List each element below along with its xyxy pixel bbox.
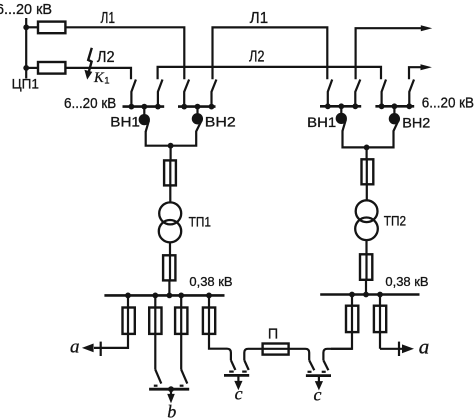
svg-text:ЦП1: ЦП1 <box>12 75 40 91</box>
svg-text:ТП1: ТП1 <box>189 215 211 231</box>
svg-text:K: K <box>93 70 105 86</box>
svg-text:a: a <box>70 336 80 357</box>
svg-text:1: 1 <box>104 76 109 87</box>
svg-text:6...20 кВ: 6...20 кВ <box>422 95 474 111</box>
svg-text:c: c <box>235 383 243 403</box>
svg-text:Л1: Л1 <box>250 10 268 27</box>
svg-text:ВН1: ВН1 <box>110 114 140 130</box>
svg-text:0,38 кВ: 0,38 кВ <box>189 274 232 289</box>
svg-text:ВН2: ВН2 <box>205 114 236 130</box>
svg-text:Л2: Л2 <box>249 49 265 66</box>
svg-text:0,38 кВ: 0,38 кВ <box>385 274 428 289</box>
svg-text:c: c <box>314 384 322 404</box>
svg-text:6...20 кВ: 6...20 кВ <box>0 2 52 18</box>
svg-text:6...20 кВ: 6...20 кВ <box>64 96 116 112</box>
svg-text:П: П <box>268 326 278 342</box>
svg-text:b: b <box>167 401 176 419</box>
svg-text:Л2: Л2 <box>97 49 115 66</box>
svg-text:ТП2: ТП2 <box>384 214 406 230</box>
svg-text:ВН2: ВН2 <box>402 115 430 131</box>
svg-text:a: a <box>419 334 430 358</box>
svg-text:Л1: Л1 <box>101 10 116 27</box>
svg-text:ВН1: ВН1 <box>307 115 336 131</box>
